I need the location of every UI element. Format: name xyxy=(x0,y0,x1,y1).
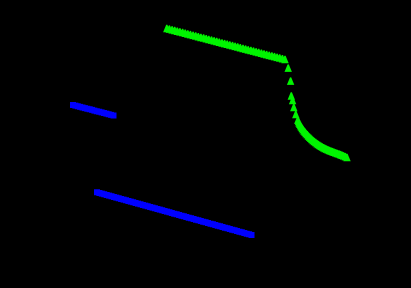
green series: steep drop sparse triangle markers xyxy=(285,64,300,118)
blue series: long lower segment (square markers) xyxy=(94,189,255,238)
blue series: short upper-left segment (square markers) xyxy=(70,102,117,119)
green series: upper straight segment (triangle markers) xyxy=(163,25,289,64)
green series: lower curved tail (triangle markers) xyxy=(294,116,351,161)
